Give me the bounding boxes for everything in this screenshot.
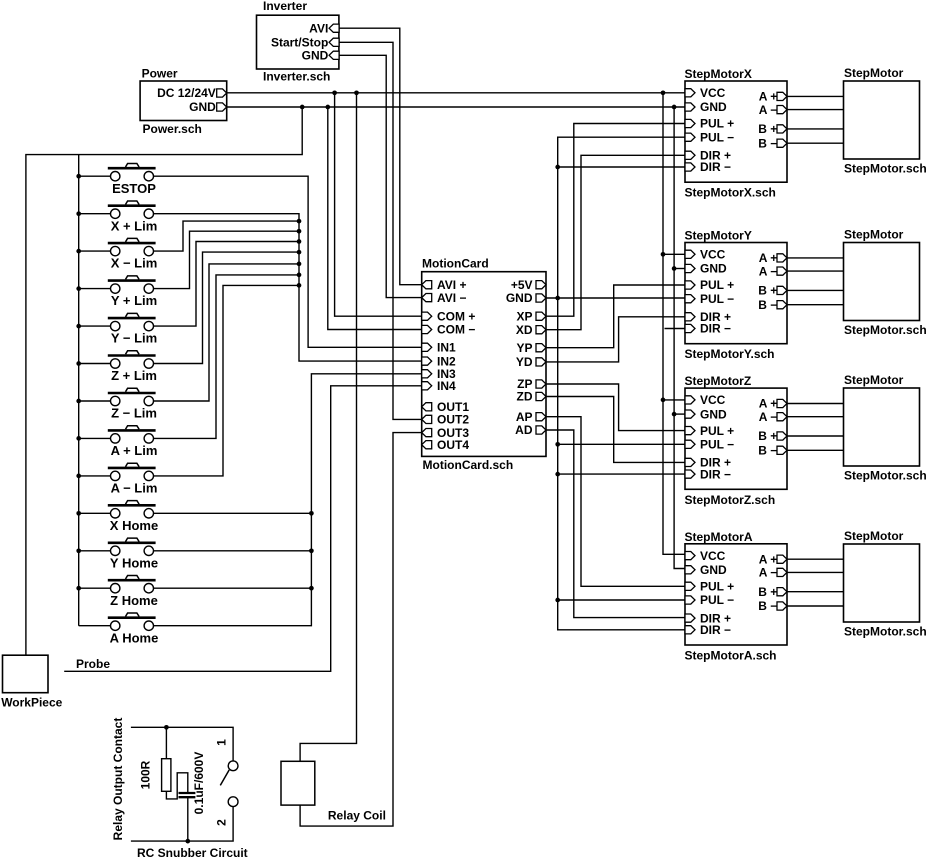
svg-text:StepMotor.sch: StepMotor.sch	[844, 323, 926, 337]
pushbutton switch X+Lim	[79, 201, 158, 233]
svg-text:StepMotorA: StepMotorA	[685, 530, 753, 544]
pin IN2 of MotionCard	[422, 357, 432, 365]
pin PUL+ of StepMotorX	[685, 119, 695, 127]
svg-text:StepMotor: StepMotor	[844, 529, 904, 543]
pin GND of StepMotorZ	[685, 410, 695, 418]
junction GND bus at StepMotorZ	[672, 412, 677, 417]
wire Y-Lim to limit bus	[154, 242, 300, 327]
wire GND power rail (Power to StepMotorX GND)	[227, 106, 685, 108]
svg-text:DIR −: DIR −	[700, 467, 731, 481]
pin GND of StepMotorY	[685, 264, 695, 272]
junction VCC bus at StepMotorZ	[661, 398, 666, 403]
pin COM− of MotionCard	[422, 325, 432, 333]
junction limit bus at Z-Lim	[297, 262, 302, 267]
svg-text:StepMotorX.sch: StepMotorX.sch	[685, 186, 776, 200]
svg-text:Relay Coil: Relay Coil	[328, 808, 386, 822]
pin +5V of MotionCard	[536, 281, 546, 289]
svg-text:AVI: AVI	[309, 21, 328, 35]
pin A− of StepMotorX	[777, 106, 787, 114]
pin DIR+ of StepMotorX	[685, 151, 695, 159]
svg-text:A +: A +	[759, 90, 778, 104]
svg-text:XP: XP	[516, 309, 532, 323]
pushbutton switch A+Lim	[79, 426, 158, 458]
wire Inverter AVI to AVI+	[339, 28, 422, 285]
svg-text:ESTOP: ESTOP	[112, 181, 156, 196]
svg-text:DIR −: DIR −	[700, 623, 731, 637]
wire X DIR- from ground bus	[558, 166, 685, 168]
junction limit bus at A+Lim	[297, 273, 302, 278]
svg-text:A −: A −	[759, 103, 778, 117]
pushbutton switch Z+Lim	[79, 351, 157, 383]
junction GND to switch common branch	[300, 105, 305, 110]
pin YD of MotionCard	[536, 358, 546, 366]
wire snubber bottom (relay output contact side 2)	[131, 807, 233, 842]
wire OUT3 to relay coil negative	[300, 433, 422, 826]
pushbutton switch ESTOP	[79, 164, 157, 196]
pushbutton switch Y+Lim	[79, 276, 157, 308]
svg-text:ZD: ZD	[517, 390, 533, 404]
wire GND to COM-	[328, 107, 422, 330]
wire VCC distribution bus	[663, 93, 685, 555]
pin PUL− of StepMotorA	[685, 596, 695, 604]
svg-text:VCC: VCC	[700, 248, 726, 262]
svg-text:A +: A +	[759, 397, 778, 411]
svg-text:B +: B +	[758, 585, 777, 599]
wire DC 12/24V power rail (Power to StepMotorX VCC)	[227, 92, 685, 94]
pin DIR− of StepMotorY	[685, 324, 695, 332]
wire snubber top (relay output contact side 1)	[131, 727, 233, 761]
svg-text:StepMotorY: StepMotorY	[685, 229, 752, 243]
junction switch common at X−Lim	[76, 249, 81, 254]
pin IN4 of MotionCard	[422, 382, 432, 390]
pin PUL− of StepMotorX	[685, 133, 695, 141]
svg-text:StepMotorX: StepMotorX	[685, 67, 752, 81]
pin YP of MotionCard	[536, 344, 546, 352]
wire GND bus to StepMotorZ GND	[674, 413, 685, 415]
junction limit bus at A-Lim	[297, 283, 302, 288]
svg-text:VCC: VCC	[700, 393, 726, 407]
pin PUL+ of StepMotorY	[685, 281, 695, 289]
wire VCC bus to StepMotorY VCC	[663, 253, 685, 255]
svg-text:Relay Output Contact: Relay Output Contact	[111, 718, 125, 841]
pin A+ of StepMotorY	[777, 254, 787, 262]
svg-text:PUL +: PUL +	[700, 278, 734, 292]
pin A+ of StepMotorA	[777, 555, 787, 563]
pin GND of Inverter	[329, 51, 339, 59]
wire StepMotorA B+ to motor	[787, 591, 844, 593]
pin DC 12/24V of Power	[217, 89, 227, 97]
pin B− of StepMotorZ	[777, 446, 787, 454]
relay coil K	[281, 761, 315, 805]
hierarchical block StepMotorX (StepMotorX.sch)	[685, 81, 787, 182]
svg-text:DIR −: DIR −	[700, 160, 731, 174]
svg-text:Z − Lim: Z − Lim	[111, 406, 157, 421]
svg-text:StepMotor: StepMotor	[844, 373, 904, 387]
pin OUT4 of MotionCard	[422, 441, 432, 449]
pin B− of StepMotorY	[777, 301, 787, 309]
pin VCC of StepMotorA	[685, 552, 695, 560]
junction switch common at X Home	[76, 511, 81, 516]
wire ESTOP to IN1	[154, 176, 422, 347]
svg-text:MotionCard.sch: MotionCard.sch	[423, 458, 514, 472]
svg-text:PUL −: PUL −	[700, 130, 734, 144]
pushbutton switch Y Home	[79, 538, 158, 570]
svg-text:StepMotor.sch: StepMotor.sch	[844, 469, 926, 483]
svg-text:GND: GND	[700, 262, 727, 276]
svg-text:PUL +: PUL +	[700, 424, 734, 438]
wire capacitor bottom lead	[187, 797, 189, 841]
pin VCC of StepMotorY	[685, 250, 695, 258]
block WorkPiece	[3, 655, 49, 693]
junction ground bus at Z PUL-	[555, 442, 560, 447]
pushbutton switch Z Home	[79, 576, 158, 608]
pin B+ of StepMotorA	[777, 588, 787, 596]
resistor R 100R	[162, 759, 171, 792]
wire ZP to Z PUL+	[546, 384, 685, 431]
pin IN1 of MotionCard	[422, 343, 432, 351]
pin DIR+ of StepMotorY	[685, 313, 695, 321]
wire Z Home to home bus	[154, 587, 312, 589]
svg-text:Y + Lim: Y + Lim	[111, 293, 157, 308]
svg-text:X − Lim: X − Lim	[111, 256, 158, 271]
wire logic-ground bus (X PUL- / X DIR- / Z PUL- / Z DIR- / A PUL- / A DIR-)	[558, 137, 685, 630]
wire A-Lim to limit bus	[154, 285, 300, 476]
junction switch common at ESTOP	[76, 174, 81, 179]
svg-text:StepMotor.sch: StepMotor.sch	[844, 162, 926, 176]
pin DIR− of StepMotorA	[685, 626, 695, 634]
wire StepMotorX A+ to motor	[787, 95, 844, 97]
junction home bus at X Home	[309, 511, 314, 516]
svg-text:Start/Stop: Start/Stop	[271, 36, 328, 50]
pushbutton switch Z−Lim	[79, 388, 157, 420]
pin A− of StepMotorA	[777, 568, 787, 576]
svg-text:MotionCard: MotionCard	[422, 257, 489, 271]
pushbutton switch X Home	[79, 501, 159, 533]
svg-text:PUL +: PUL +	[700, 117, 734, 131]
svg-text:AVI −: AVI −	[437, 291, 466, 305]
svg-text:VCC: VCC	[700, 549, 726, 563]
capacitor C 0.1uF/600V top plate	[179, 792, 196, 794]
pin GND of StepMotorA	[685, 566, 695, 574]
junction switch common at Z−Lim	[76, 399, 81, 404]
svg-text:VCC: VCC	[700, 86, 726, 100]
junction switch common at Z+Lim	[76, 361, 81, 366]
wire YD to Y DIR+	[546, 317, 685, 362]
pin PUL− of StepMotorZ	[685, 440, 695, 448]
junction switch common at Y+Lim	[76, 286, 81, 291]
svg-text:RC Snubber Circuit: RC Snubber Circuit	[137, 846, 248, 859]
block StepMotor (motor for A axis, StepMotor.sch)	[844, 544, 920, 622]
junction GND to GND bus	[672, 105, 677, 110]
svg-text:GND: GND	[506, 291, 533, 305]
junction ground bus at X DIR-	[555, 165, 560, 170]
junction limit bus at X-Lim	[297, 219, 302, 224]
pin DIR+ of StepMotorA	[685, 614, 695, 622]
wire Y+Lim to limit bus	[154, 231, 300, 288]
junction limit bus at Z+Lim	[297, 250, 302, 255]
svg-text:DC 12/24V: DC 12/24V	[157, 86, 216, 100]
svg-text:Probe: Probe	[76, 657, 110, 671]
pin DIR− of StepMotorZ	[685, 470, 695, 478]
wire A PUL- from ground bus	[558, 599, 685, 601]
svg-text:Y − Lim: Y − Lim	[111, 331, 157, 346]
pin AP of MotionCard	[536, 413, 546, 421]
svg-text:Inverter.sch: Inverter.sch	[263, 70, 330, 84]
junction snubber top at resistor	[164, 725, 169, 730]
wire GND bus to StepMotorY GND	[674, 268, 685, 270]
pin OUT3 of MotionCard	[422, 429, 432, 437]
pin VCC of StepMotorX	[685, 89, 695, 97]
svg-text:StepMotorZ: StepMotorZ	[685, 374, 752, 388]
svg-text:AP: AP	[516, 410, 533, 424]
svg-text:Power.sch: Power.sch	[143, 122, 202, 136]
hierarchical block Power (Power.sch)	[140, 81, 227, 121]
svg-text:B −: B −	[758, 599, 777, 613]
wire StepMotorY A+ to motor	[787, 257, 844, 259]
wire X+Lim to limit bus to IN2	[154, 214, 422, 361]
wire resistor bottom lead to capacitor top	[166, 773, 187, 799]
svg-text:StepMotor.sch: StepMotor.sch	[844, 625, 926, 639]
junction DC+ to VCC bus	[661, 90, 666, 95]
pin VCC of StepMotorZ	[685, 396, 695, 404]
svg-text:B +: B +	[758, 122, 777, 136]
wire AP to A PUL+	[546, 417, 685, 587]
wire ZD to Z DIR+	[546, 397, 685, 463]
svg-text:B +: B +	[758, 429, 777, 443]
hierarchical block StepMotorA (StepMotorA.sch)	[685, 544, 787, 645]
svg-text:AD: AD	[515, 423, 533, 437]
wire X Home to home bus	[154, 512, 312, 514]
wire StepMotorZ B− to motor	[787, 449, 844, 451]
pin AVI of Inverter	[329, 24, 339, 32]
svg-text:PUL −: PUL −	[700, 438, 734, 452]
wire MotionCard GND to StepMotorY PUL-	[546, 297, 685, 299]
svg-text:GND: GND	[189, 100, 216, 114]
svg-text:Y Home: Y Home	[110, 555, 158, 570]
junction switch common at A−Lim	[76, 474, 81, 479]
svg-text:StepMotor: StepMotor	[844, 66, 904, 80]
svg-text:A + Lim: A + Lim	[111, 443, 158, 458]
svg-text:PUL −: PUL −	[700, 593, 734, 607]
svg-text:A −: A −	[759, 566, 778, 580]
svg-text:YD: YD	[516, 355, 533, 369]
wire StepMotorY B+ to motor	[787, 289, 844, 291]
hierarchical block StepMotorY (StepMotorY.sch)	[685, 243, 787, 344]
wire DC+ to relay coil positive	[300, 93, 356, 762]
wire X-Lim to limit bus	[154, 221, 300, 251]
relay output contact 1	[228, 761, 238, 771]
svg-text:Z Home: Z Home	[110, 593, 158, 608]
wire Inverter GND to AVI-	[339, 55, 422, 297]
junction ground bus at Z DIR-	[555, 472, 560, 477]
svg-text:StepMotorA.sch: StepMotorA.sch	[685, 649, 777, 663]
wire StepMotorY A− to motor	[787, 270, 844, 272]
pin B− of StepMotorA	[777, 602, 787, 610]
svg-text:A Home: A Home	[110, 630, 159, 645]
wire XP to X PUL+	[546, 124, 685, 317]
wire DC+ to COM+	[335, 93, 422, 316]
capacitor C 0.1uF/600V bottom plate	[179, 796, 196, 798]
wire Probe to IN4	[64, 386, 422, 672]
svg-text:A +: A +	[759, 251, 778, 265]
junction home bus at Z Home	[309, 586, 314, 591]
pin PUL+ of StepMotorA	[685, 582, 695, 590]
svg-text:COM +: COM +	[437, 309, 475, 323]
wire YP to Y PUL+	[546, 285, 685, 348]
svg-text:PUL −: PUL −	[700, 292, 734, 306]
pin OUT2 of MotionCard	[422, 415, 432, 423]
block StepMotor (motor for X axis, StepMotor.sch)	[844, 81, 920, 159]
svg-text:A −: A −	[759, 410, 778, 424]
svg-text:Z + Lim: Z + Lim	[111, 368, 157, 383]
pin AD of MotionCard	[536, 426, 546, 434]
wire VCC bus to StepMotorZ VCC	[663, 399, 685, 401]
pin DIR+ of StepMotorZ	[685, 458, 695, 466]
svg-text:COM −: COM −	[437, 323, 475, 337]
svg-text:DIR −: DIR −	[700, 322, 731, 336]
pin PUL+ of StepMotorZ	[685, 427, 695, 435]
svg-text:PUL +: PUL +	[700, 580, 734, 594]
wire AD to A DIR+	[546, 430, 685, 618]
wire Z-Lim to limit bus	[154, 264, 300, 401]
svg-text:GND: GND	[302, 49, 329, 63]
pin B+ of StepMotorY	[777, 286, 787, 294]
wire StepMotorX A− to motor	[787, 109, 844, 111]
relay contact blade (open)	[220, 770, 229, 786]
svg-text:GND: GND	[700, 100, 727, 114]
hierarchical block Inverter (Inverter.sch)	[257, 15, 339, 69]
wire XD to X DIR+	[546, 155, 685, 329]
wire Z+Lim to limit bus	[154, 252, 300, 363]
hierarchical block StepMotorZ (StepMotorZ.sch)	[685, 388, 787, 489]
wire StepMotorY B− to motor	[787, 304, 844, 306]
svg-text:AVI +: AVI +	[437, 278, 466, 292]
junction limit bus at Y+Lim	[297, 229, 302, 234]
junction switch common at A+Lim	[76, 436, 81, 441]
junction VCC bus at StepMotorY	[661, 252, 666, 257]
wire StepMotorA A− to motor	[787, 571, 844, 573]
junction switch common at Y Home	[76, 548, 81, 553]
junction switch common at X+Lim	[76, 211, 81, 216]
pin A− of StepMotorY	[777, 267, 787, 275]
svg-text:A −: A −	[759, 264, 778, 278]
pin B+ of StepMotorZ	[777, 432, 787, 440]
svg-text:B −: B −	[758, 298, 777, 312]
junction switch common at Y−Lim	[76, 324, 81, 329]
pin PUL− of StepMotorY	[685, 295, 695, 303]
pin A+ of StepMotorZ	[777, 399, 787, 407]
svg-text:1: 1	[214, 739, 228, 746]
wire GND rail down to switch common and WorkPiece	[26, 107, 302, 655]
wire StepMotorZ A− to motor	[787, 416, 844, 418]
svg-text:Inverter: Inverter	[263, 0, 307, 13]
wire Y Home to home bus	[154, 550, 312, 552]
pin COM+ of MotionCard	[422, 312, 432, 320]
pin A− of StepMotorZ	[777, 413, 787, 421]
svg-text:StepMotorZ.sch: StepMotorZ.sch	[685, 493, 776, 507]
hierarchical block MotionCard (MotionCard.sch)	[422, 272, 546, 457]
wire A Home to home bus to IN3	[154, 374, 422, 626]
block StepMotor (motor for Y axis, StepMotor.sch)	[844, 243, 920, 321]
junction home bus at Y Home	[309, 548, 314, 553]
svg-text:OUT4: OUT4	[437, 438, 469, 452]
pushbutton switch Y−Lim	[79, 313, 157, 345]
junction GND to COM- branch	[325, 105, 330, 110]
wire Inverter Start/Stop to OUT2	[339, 42, 422, 419]
pin AVI+ of MotionCard	[422, 281, 432, 289]
svg-text:WorkPiece: WorkPiece	[1, 696, 62, 710]
wire Y DIR- stub	[665, 328, 686, 330]
svg-text:Power: Power	[142, 67, 178, 81]
wire StepMotorZ A+ to motor	[787, 403, 844, 405]
pin A+ of StepMotorX	[777, 92, 787, 100]
pin ZD of MotionCard	[536, 392, 546, 400]
svg-text:B −: B −	[758, 136, 777, 150]
wire StepMotorA B− to motor	[787, 605, 844, 607]
junction switch common at Z Home	[76, 586, 81, 591]
wire A+Lim to limit bus	[154, 275, 300, 439]
pushbutton switch A Home	[79, 613, 159, 645]
svg-text:OUT2: OUT2	[437, 413, 469, 427]
svg-text:A +: A +	[759, 552, 778, 566]
svg-text:A − Lim: A − Lim	[111, 481, 158, 496]
wire GND distribution bus	[674, 107, 685, 569]
wire StepMotorX B− to motor	[787, 142, 844, 144]
svg-text:GND: GND	[700, 407, 727, 421]
svg-text:YP: YP	[516, 341, 532, 355]
pin GND of Power	[217, 103, 227, 111]
pin Start/Stop of Inverter	[329, 38, 339, 46]
pin ZP of MotionCard	[536, 380, 546, 388]
svg-text:StepMotorY.sch: StepMotorY.sch	[685, 347, 775, 361]
pin GND of MotionCard	[536, 294, 546, 302]
svg-text:StepMotor: StepMotor	[844, 228, 904, 242]
wire switch common bus	[78, 155, 80, 626]
svg-text:B +: B +	[758, 284, 777, 298]
wire Z PUL- from ground bus	[558, 443, 685, 445]
wire Z DIR- from ground bus	[558, 473, 685, 475]
pin GND of StepMotorX	[685, 103, 695, 111]
svg-text:+5V: +5V	[511, 278, 533, 292]
junction GND bus at StepMotorY	[672, 266, 677, 271]
svg-text:B −: B −	[758, 444, 777, 458]
junction MotionCard GND to logic-ground bus	[555, 296, 560, 301]
wire StepMotorX B+ to motor	[787, 128, 844, 130]
svg-text:X + Lim: X + Lim	[111, 218, 158, 233]
pushbutton switch A−Lim	[79, 463, 158, 495]
svg-text:XD: XD	[516, 323, 533, 337]
pin B+ of StepMotorX	[777, 125, 787, 133]
junction ground bus at A PUL-	[555, 598, 560, 603]
junction snubber bottom at capacitor	[185, 839, 190, 844]
svg-text:IN1: IN1	[437, 341, 456, 355]
svg-text:X Home: X Home	[110, 518, 158, 533]
wire StepMotorA A+ to motor	[787, 558, 844, 560]
svg-text:GND: GND	[700, 563, 727, 577]
junction DC+ to relay coil branch	[354, 90, 359, 95]
pushbutton switch X−Lim	[79, 238, 158, 270]
pin DIR− of StepMotorX	[685, 163, 695, 171]
svg-text:0.1uF/600V: 0.1uF/600V	[192, 752, 206, 815]
pin B− of StepMotorX	[777, 139, 787, 147]
svg-text:100R: 100R	[139, 760, 153, 789]
pin IN3 of MotionCard	[422, 370, 432, 378]
wire resistor top lead	[165, 727, 167, 758]
wire StepMotorZ B+ to motor	[787, 435, 844, 437]
pin XD of MotionCard	[536, 326, 546, 334]
pin XP of MotionCard	[536, 312, 546, 320]
svg-text:2: 2	[214, 819, 228, 826]
